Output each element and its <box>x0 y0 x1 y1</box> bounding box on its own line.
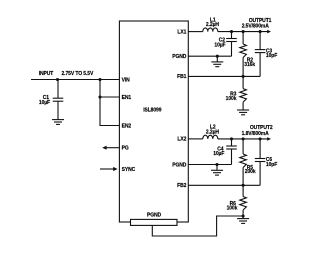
inductor L2 <box>203 135 218 139</box>
svg-text:100k: 100k <box>227 206 238 212</box>
svg-text:EN2: EN2 <box>122 123 132 129</box>
svg-text:PGND: PGND <box>172 54 187 60</box>
svg-text:2.5V/800mA: 2.5V/800mA <box>242 24 270 30</box>
node FB1/R2/R3 junction <box>242 75 245 78</box>
svg-text:10pF: 10pF <box>266 53 277 59</box>
node PGND1 ground junction <box>216 55 219 58</box>
svg-text:PG: PG <box>122 146 129 152</box>
node input/EN branch junction <box>98 78 101 81</box>
wire input rail to VIN <box>31 79 119 81</box>
ground below R6 <box>242 216 244 219</box>
wire LX1 to inductor <box>188 31 203 33</box>
ground at PGND2 <box>216 165 218 171</box>
svg-text:FB2: FB2 <box>177 183 186 189</box>
PG arrowhead (points left) <box>102 146 106 150</box>
PGND exposed pad <box>131 219 178 225</box>
resistor R2 <box>240 32 247 77</box>
wire PGND2 to C4 bottom <box>188 164 231 166</box>
ground below R3 <box>237 110 249 115</box>
wire LX2 to inductor <box>188 138 203 140</box>
svg-text:ISL8099: ISL8099 <box>143 107 162 113</box>
svg-text:316k: 316k <box>244 62 255 68</box>
capacitor C2 <box>226 32 237 57</box>
node output2/C6 <box>259 137 262 140</box>
svg-text:LX2: LX2 <box>177 137 186 143</box>
resistor R6 <box>240 185 247 216</box>
svg-text:2.2µH: 2.2µH <box>206 22 219 28</box>
svg-text:EN1: EN1 <box>122 95 132 101</box>
OUTPUT1 arrowhead <box>267 30 271 34</box>
wire output1 rail <box>218 31 268 33</box>
svg-text:2.75V TO 5.5V: 2.75V TO 5.5V <box>62 71 94 77</box>
wire FB1 rail <box>188 75 260 77</box>
svg-text:PGND: PGND <box>147 212 162 218</box>
svg-text:100k: 100k <box>226 96 237 102</box>
SYNC arrowhead (points right) <box>113 167 117 171</box>
resistor R3 <box>240 76 247 110</box>
svg-text:10µF: 10µF <box>214 42 225 48</box>
node PGND2 ground junction <box>215 163 218 166</box>
svg-text:10µF: 10µF <box>213 151 224 157</box>
wire FB2 rail <box>188 184 260 186</box>
inductor L1 <box>203 28 218 32</box>
node output1/C3 <box>259 30 262 33</box>
node input/C1 junction <box>56 78 59 81</box>
wire PG stub <box>105 147 119 149</box>
svg-text:10pF: 10pF <box>266 162 277 168</box>
svg-text:SYNC: SYNC <box>122 167 136 173</box>
node FB2/R5/R6 junction <box>242 184 245 187</box>
node EN1 junction <box>98 95 101 98</box>
resistor R5 <box>240 139 247 185</box>
wire output2 rail <box>218 138 268 140</box>
svg-text:PGND: PGND <box>172 162 187 168</box>
node output2/C4 <box>230 137 233 140</box>
svg-text:INPUT: INPUT <box>39 71 54 77</box>
capacitor C6 <box>255 139 266 185</box>
svg-text:10µF: 10µF <box>39 100 50 106</box>
svg-text:LX1: LX1 <box>177 29 186 35</box>
ground below C1 <box>52 120 64 125</box>
wire EN1 stub <box>100 96 119 98</box>
svg-text:2.2µH: 2.2µH <box>206 129 219 135</box>
node R6 bottom junction <box>242 214 245 217</box>
node output2/R5 <box>242 137 245 140</box>
capacitor C3 <box>255 32 266 77</box>
wire PGND1 to C2 bottom <box>188 55 231 57</box>
wire SYNC stub <box>100 168 114 170</box>
OUTPUT2 arrowhead <box>267 137 271 141</box>
svg-text:FB1: FB1 <box>177 74 186 80</box>
capacitor C1 <box>53 80 64 120</box>
capacitor C4 <box>226 139 237 165</box>
ground at PGND1 <box>216 56 218 62</box>
wire PGND pad to R6 ground <box>152 216 243 236</box>
svg-text:200k: 200k <box>245 169 256 175</box>
node output1/R2 <box>242 30 245 33</box>
svg-text:VIN: VIN <box>122 77 131 83</box>
wire EN branch <box>100 80 119 126</box>
svg-text:1.8V/800mA: 1.8V/800mA <box>242 131 270 137</box>
node output1/C2 <box>230 30 233 33</box>
IC U1 ISL8099 dual buck regulator body <box>119 21 188 222</box>
